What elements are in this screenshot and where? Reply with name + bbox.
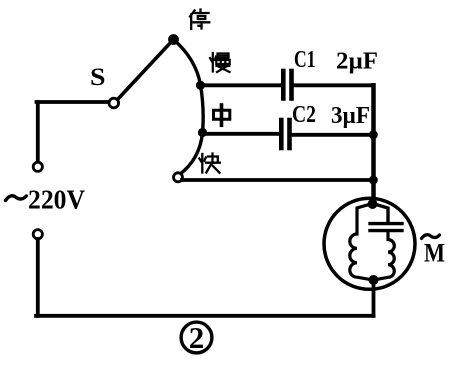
svg-text:2: 2 [189,320,205,355]
svg-text:C2: C2 [292,102,316,128]
switch S contact arc [174,40,204,175]
label 快 (fast) [199,154,220,173]
motor main winding (left branch) [350,204,374,281]
wire: bottom horizontal rail [36,314,374,318]
wire: 慢 row to C1 [201,83,282,87]
label 中 (medium) [214,105,230,125]
svg-text:C1: C1 [294,47,316,73]
wire: left vertical down to upper supply terminal [36,102,40,162]
wire: 中 row to C2 [203,132,280,136]
contact dot: 中 medium position [198,128,207,137]
junction: motor bottom node [369,275,379,285]
svg-text:M: M [424,239,445,268]
switch S arm [118,41,173,100]
svg-text:2µF: 2µF [336,49,378,75]
label (2) figure number [181,320,212,355]
contact dot: 慢 slow position [196,81,205,90]
wire: 快 row to right bus [182,178,374,182]
wire: top-left horizontal from supply column to switch pole [37,100,109,104]
terminal: 快 fast position (open circle) [174,173,183,182]
terminal: supply upper (open circle) [33,162,42,171]
label ~M [422,235,446,268]
junction: C2 wire / right bus [369,130,378,139]
svg-text:S: S [90,64,106,91]
contact dot: 停 stop position [168,34,179,45]
label C1 2uF [294,47,378,75]
wire: C2 to right bus [292,133,374,137]
motor internal capacitor [370,204,402,231]
switch S pole terminal (open circle) [109,98,119,108]
junction: 快 wire / right bus [369,176,378,185]
wire: C1 to right bus [294,83,374,87]
label ~220V [6,185,86,215]
capacitor C1 [283,71,291,99]
capacitor C2 [281,120,289,148]
wire: left vertical from lower terminal to bottom rail [36,239,40,316]
junction: motor top node [368,199,378,209]
label C2 3uF [292,102,370,129]
label 停 (stop) [190,10,209,30]
wire: motor bottom to bottom rail [372,280,376,316]
motor auxiliary winding (right branch, lower) [374,231,395,280]
wire: right bus vertical [371,85,376,203]
motor M outline [324,198,415,289]
svg-text:220V: 220V [28,185,85,215]
label 慢 (slow) [210,53,230,72]
terminal: supply lower (open circle) [33,230,42,239]
svg-text:3µF: 3µF [331,103,370,129]
